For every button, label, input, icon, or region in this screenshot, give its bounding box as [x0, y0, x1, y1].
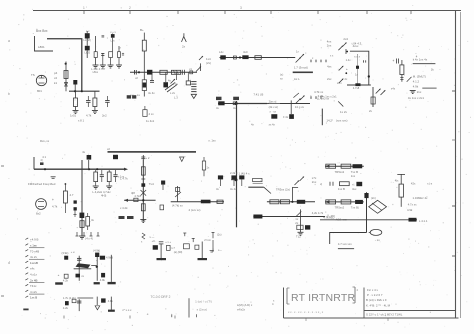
title block logo left bracket	[286, 288, 288, 304]
resistor R843	[87, 213, 89, 217]
transistor M3 arrows	[339, 79, 344, 84]
cap under divider	[113, 155, 118, 159]
box K2	[160, 205, 164, 210]
resistor R841 column	[65, 183, 67, 185]
mixer transistor M1 arrows	[338, 46, 343, 51]
svg-text:S 22Y u 1° uk 2 6EY2 T1WL: S 22Y u 1° uk 2 6EY2 T1WL	[366, 313, 403, 317]
coil L860 at left end W216	[253, 215, 262, 219]
svg-text:L(M) (A.D) x: L(M) (A.D) x	[237, 303, 253, 307]
resistor R850 on V3	[141, 167, 145, 175]
transformer bar dark	[76, 263, 91, 268]
ground under x300	[298, 231, 304, 233]
svg-text:2x: 2x	[345, 77, 348, 81]
svg-text:x | x: x | x	[427, 182, 433, 186]
svg-text:2xx: 2xx	[312, 180, 317, 184]
wire W51 with corner	[350, 51, 369, 85]
input connector J1 bracket	[35, 36, 54, 51]
svg-text:4: 4	[272, 302, 274, 306]
svg-text:2x: 2x	[295, 221, 299, 225]
resistor R862 on Y183	[340, 182, 350, 186]
capacitor C805 top bars	[102, 35, 105, 37]
resistor R801	[95, 36, 97, 52]
resistor R811	[142, 40, 146, 51]
svg-text:x x · x · x x · x · x · x ·: x x · x · x x · x · x · x · x x · x	[288, 310, 324, 314]
wire to V6	[343, 103, 367, 105]
vertical V4	[366, 192, 368, 232]
box B1	[64, 274, 68, 278]
svg-text:42x: 42x	[411, 182, 416, 186]
svg-text:L 2x: L 2x	[170, 91, 176, 95]
svg-text:(2k x w): (2k x w)	[269, 105, 279, 109]
svg-text:x2: x2	[107, 147, 110, 151]
resistor R820 on Y57	[255, 56, 261, 60]
transistor Q812 arrows	[295, 181, 300, 186]
cap C830 drop	[88, 160, 90, 170]
ground under R832	[106, 185, 112, 187]
FM rail wire	[34, 168, 124, 170]
short wire stub W188	[248, 186, 263, 188]
svg-text:4|x: 4|x	[395, 179, 399, 183]
V3 top cap	[142, 155, 144, 160]
svg-text:TR5xx2: TR5xx2	[335, 206, 345, 210]
svg-text:x + x: x + x	[110, 31, 116, 34]
cluster B coil	[65, 301, 69, 305]
svg-text:Fx/ x 4 x: Fx/ x 4 x	[367, 288, 378, 292]
coil L814 drop	[165, 72, 167, 82]
svg-text:Bxx Bxx: Bxx Bxx	[36, 29, 48, 33]
zigzag symbol	[142, 233, 145, 239]
svg-text:TR5xx2: TR5xx2	[335, 170, 345, 174]
svg-text:2ˆmm: 2ˆmm	[204, 238, 211, 242]
transformer link wire	[91, 265, 97, 267]
junction blob V1 mid	[235, 178, 238, 181]
svg-text:4 (xxx xx): 4 (xxx xx)	[189, 208, 201, 212]
junction dot V3 W200	[142, 199, 144, 201]
capacitor C815 bars on bus	[181, 70, 183, 75]
resistor R813 on bus	[171, 70, 180, 74]
speaker bracket	[321, 109, 323, 126]
svg-text:2x: 2x	[182, 45, 186, 49]
cluster B vert cap	[78, 299, 80, 311]
resistor R860 on Y166	[326, 164, 336, 168]
svg-text:2x: 2x	[369, 109, 373, 113]
wire input to C803 corner	[47, 39, 82, 91]
svg-text:x2: x2	[54, 76, 57, 80]
cross marks V3	[141, 190, 147, 196]
capacitor C817 drop	[151, 72, 153, 80]
legend row 11	[25, 296, 28, 298]
title block separator	[363, 288, 365, 319]
cluster B coil2	[101, 298, 106, 302]
svg-text:4x: 4x	[216, 106, 219, 110]
resistor R863 on Y202b	[326, 200, 336, 204]
bracket block tick	[196, 314, 198, 317]
coil B4	[100, 256, 105, 260]
wire W220	[320, 219, 417, 221]
legend row 4	[25, 255, 28, 257]
resistor R815 lower	[142, 80, 146, 91]
svg-text:4.9kB: 4.9kB	[106, 256, 113, 260]
resistor R865	[397, 173, 405, 175]
svg-text:T41x: T41x	[30, 284, 37, 288]
svg-text:4.7: 4.7	[70, 193, 74, 197]
svg-text:L8xx: L8xx	[93, 70, 99, 74]
small box on bus	[190, 71, 193, 74]
svg-text:xx: xx	[81, 275, 84, 278]
svg-text:+4.9 B: +4.9 B	[30, 238, 39, 242]
diagonal into riser	[293, 93, 299, 98]
antenna symbol	[182, 37, 187, 42]
svg-text:x 4s: x 4s	[173, 82, 178, 86]
title block bottom rule	[284, 317, 459, 319]
svg-text:2|xx x|: 2|xx x|	[269, 100, 277, 104]
IF transformer core square	[356, 66, 359, 69]
wire W216	[253, 216, 325, 218]
svg-text:M. (3MLT): M. (3MLT)	[413, 75, 426, 79]
svg-text:(a),(30): (a),(30)	[174, 250, 183, 254]
resistor R803	[109, 52, 113, 58]
svg-text:b: b	[8, 92, 10, 96]
svg-text:FM/Fe/Fed Freq Med: FM/Fe/Fed Freq Med	[28, 182, 56, 186]
junction blob on W51 vertical	[368, 75, 370, 77]
transistor Q801	[36, 75, 46, 85]
svg-text:2xx: 2xx	[327, 43, 332, 47]
IF tick pair row	[310, 60, 312, 63]
cluster A coil C901	[64, 256, 68, 260]
svg-text:Txx B|: Txx B|	[351, 206, 359, 210]
junction dot clusterA	[96, 266, 98, 268]
capsule component	[370, 229, 382, 235]
dash pair below rail	[51, 176, 56, 178]
coil L851	[161, 181, 165, 185]
coil L853 on W202	[297, 200, 305, 204]
lower cluster box column x300	[300, 209, 302, 232]
svg-text:4.7k2: 4.7k2	[134, 194, 141, 198]
coil L861 on Y166	[353, 164, 363, 168]
striped transformer block	[191, 81, 196, 83]
svg-text:1 (ur) ! u (T!): 1 (ur) ! u (T!)	[195, 300, 212, 304]
svg-text:x. 1xx: x. 1xx	[208, 139, 216, 143]
svg-text:x2: x2	[135, 76, 138, 80]
coil L810 on bus	[147, 70, 152, 75]
mid cluster cap bars	[159, 241, 164, 243]
tick under	[171, 314, 173, 317]
svg-text:Rxx, xx: Rxx, xx	[40, 139, 50, 143]
rail arrow end	[124, 168, 128, 171]
svg-text:1xx: 1xx	[351, 174, 356, 178]
cluster B wire	[77, 297, 93, 299]
svg-text:L805: L805	[85, 52, 91, 55]
svg-text:4x 1xx x 2x1: 4x 1xx x 2x1	[408, 96, 424, 100]
svg-text:RT IRTNRTR: RT IRTNRTR	[291, 292, 355, 304]
cluster B box	[72, 299, 76, 303]
riser x292 W202	[292, 188, 298, 202]
node X1 with resistor R805	[65, 63, 67, 65]
dark level bar 1500	[293, 72, 313, 74]
svg-text:x 1xx: x 1xx	[30, 244, 37, 248]
resistor R830	[401, 60, 403, 65]
svg-text:4.9k: 4.9k	[407, 208, 413, 212]
coil B3	[101, 273, 105, 278]
legend row 2	[25, 244, 28, 246]
mid cluster gnd2 bar	[198, 258, 208, 260]
legend row 9	[25, 284, 28, 286]
mid cluster coil	[153, 245, 158, 250]
svg-text:x4x: x4x	[391, 87, 396, 91]
svg-text:4x: 4x	[251, 123, 254, 127]
svg-text:14 g xx: 14 g xx	[295, 105, 305, 109]
svg-text:xx 4x: xx 4x	[269, 123, 276, 127]
svg-text:1.4x: 1.4x	[346, 58, 352, 62]
svg-text:4.7 xxx xxx: 4.7 xxx xxx	[338, 242, 352, 246]
wire Y57 main	[220, 57, 296, 59]
svg-text:xx: xx	[280, 77, 283, 81]
svg-text:x4/x2x: x4/x2x	[237, 308, 246, 312]
svg-text:4.9k: 4.9k	[100, 278, 106, 282]
svg-text:(4.7k) xx: (4.7k) xx	[172, 204, 183, 208]
resistor R856 right of divider	[203, 157, 205, 161]
resistor R807	[75, 91, 77, 98]
junction dots on rail	[44, 168, 46, 170]
title block logo right bracket	[354, 287, 356, 303]
resistor R851 on V3	[141, 204, 145, 211]
svg-text:4x 4x: 4x 4x	[148, 91, 155, 95]
wire W202 right segment	[267, 201, 315, 203]
tick below title	[305, 319, 307, 322]
ground under R804	[116, 64, 122, 66]
svg-text:x: x	[312, 57, 314, 60]
capacitor C805	[102, 53, 104, 65]
rail left stub	[33, 157, 35, 169]
legend row 5	[25, 261, 28, 263]
svg-text:4s: 4s	[168, 78, 171, 82]
legend row 1	[25, 238, 28, 240]
ground under C805	[100, 64, 106, 66]
ground under R831	[93, 185, 99, 187]
mid cluster hanger b	[192, 238, 194, 242]
svg-text:1xxxB: 1xxxB	[30, 261, 38, 265]
cap hanger row above clusterA	[76, 232, 78, 236]
IF bus wire	[130, 71, 197, 73]
svg-text:4.9k: 4.9k	[108, 299, 114, 303]
svg-text:TL4: TL4	[149, 182, 154, 186]
coil L820 on Y57	[220, 55, 226, 59]
svg-text:1xx B: 1xx B	[30, 296, 37, 300]
svg-text:4.7k: 4.7k	[52, 205, 58, 209]
svg-text:t.04 4.3: t.04 4.3	[352, 42, 362, 46]
wire Y103 heavy segment	[234, 103, 267, 105]
transistor arrow T2 drop	[176, 72, 178, 80]
diamond VDR	[369, 200, 387, 213]
svg-text:3: 3	[240, 6, 242, 10]
ground under R803	[108, 64, 114, 66]
svg-text:L.3: L.3	[174, 96, 178, 100]
svg-text:LL (xx) xx: LL (xx) xx	[317, 97, 330, 101]
svg-text:+: +	[52, 198, 54, 202]
capacitor C831	[100, 174, 104, 176]
svg-text:TS: TS	[31, 73, 35, 77]
legend row 7	[25, 273, 28, 275]
diagonal on riser	[175, 192, 181, 197]
svg-text:+ x +: + x +	[165, 241, 171, 244]
coil L863 on Y202b	[355, 200, 363, 204]
vertical V1	[236, 101, 238, 227]
riser x291 with cap	[290, 100, 292, 114]
svg-text:4 xx: 4 xx	[149, 112, 155, 116]
svg-text:(4 x 4): (4 x 4)	[85, 237, 93, 241]
ground under R807	[73, 110, 79, 112]
tick below title 2	[387, 319, 389, 322]
tick pair row Y103	[310, 96, 312, 99]
svg-text:x—: x—	[218, 249, 222, 252]
svg-text:L.4.7k: L.4.7k	[120, 177, 128, 181]
corner wire V4 left	[330, 233, 367, 245]
legend row 6	[25, 267, 28, 269]
dark labels TL2 TL2	[119, 216, 125, 219]
junction dot bus x139	[138, 71, 140, 73]
mid cluster box2	[195, 245, 199, 249]
svg-text:K. 4°B: 2.™ · 4L M: K. 4°B: 2.™ · 4L M	[366, 304, 391, 308]
svg-text:(3.9k): (3.9k)	[62, 251, 69, 255]
small arrow	[407, 77, 412, 82]
diagonal from stub	[264, 187, 271, 193]
svg-text:x|: x|	[320, 182, 322, 186]
ground bar A1	[55, 282, 63, 284]
svg-text:1x 2x: 1x 2x	[340, 110, 347, 114]
svg-text:8x2: 8x2	[36, 212, 41, 216]
diode D801	[64, 85, 68, 87]
junction dot Y57	[239, 56, 241, 58]
vertical V3	[142, 160, 144, 222]
triangle mark	[180, 157, 184, 162]
coil L805	[85, 46, 90, 51]
svg-text:TL2: TL2	[296, 235, 301, 239]
section divider wire	[108, 151, 197, 153]
svg-text:4xx: 4xx	[352, 187, 357, 191]
svg-text:2xx: 2xx	[327, 77, 332, 81]
svg-text:4.9k: 4.9k	[413, 85, 419, 89]
junction dot left col	[345, 72, 347, 74]
vertical xA with cap	[78, 256, 80, 281]
svg-text:+C.: +C.	[152, 239, 156, 243]
svg-text:7.41 | B: 7.41 | B	[253, 93, 263, 97]
svg-text:d: d	[8, 261, 10, 265]
svg-text:+: +	[346, 67, 348, 71]
box B2	[76, 274, 81, 278]
svg-text:1x 4x1: 1x 4x1	[146, 119, 155, 123]
svg-text:x1: x1	[189, 67, 192, 71]
coil L840 on V2	[80, 213, 85, 218]
svg-text:2.2k x: 2.2k x	[230, 171, 238, 175]
svg-text:1x: 1x	[296, 50, 299, 54]
h line right	[422, 87, 436, 89]
svg-text:1.43MHz 4x: 1.43MHz 4x	[413, 196, 429, 200]
box on W200	[134, 198, 138, 201]
legend row 8	[25, 279, 28, 281]
underline k-line	[413, 63, 436, 65]
svg-text:x x: x x	[330, 55, 334, 58]
capacitor C803	[85, 33, 90, 38]
mid cluster vert1	[160, 244, 162, 258]
svg-text:4x0: 4x0	[243, 50, 248, 54]
bus y85	[347, 84, 371, 86]
mid cluster gnd1 bar	[157, 258, 167, 260]
ground under R809	[92, 110, 98, 112]
wire Y103 right	[267, 103, 310, 105]
coil L850 on V3	[141, 183, 145, 187]
svg-text:B (x4) x R2k x F: B (x4) x R2k x F	[366, 298, 387, 302]
mid cluster vert2	[201, 242, 203, 259]
svg-text:2xx: 2xx	[417, 90, 422, 94]
svg-text:TC-0.0 DRF 2: TC-0.0 DRF 2	[151, 295, 171, 299]
wire W202 left segment	[171, 201, 224, 203]
resistor R832 rail drop	[108, 170, 110, 172]
svg-text:4H2: 4H2	[101, 194, 107, 198]
cluster B vert3	[110, 297, 112, 310]
resistor R840 on V2	[80, 221, 84, 228]
svg-text:L 4.1.1: L 4.1.1	[419, 219, 428, 223]
coil L824 on Y103	[218, 101, 224, 105]
coil on bus y85	[355, 83, 360, 86]
svg-text:1.7: 1.7	[171, 246, 175, 250]
svg-text:1.(4)| 4 x: 1.(4)| 4 x	[239, 172, 251, 176]
svg-text:4.7x8: 4.7x8	[353, 86, 360, 90]
svg-text:4x: 4x	[91, 218, 95, 222]
vertical V2	[81, 160, 83, 236]
svg-text:P · x 2.2 6 7: P · x 2.2 6 7	[367, 293, 383, 297]
svg-text:L801: L801	[38, 45, 45, 49]
wire TL2 bottom	[143, 91, 145, 97]
svg-text:4.2k: 4.2k	[63, 279, 69, 283]
svg-text:4.1.2: 4.1.2	[413, 80, 420, 84]
riser x222 to W202	[221, 187, 223, 202]
svg-text:4xx: 4xx	[327, 65, 332, 69]
dark mark left margin	[40, 162, 44, 165]
resistor R854 on W202	[280, 200, 289, 204]
coil L808	[112, 33, 114, 36]
svg-text:T0 x4B: T0 x4B	[30, 249, 39, 253]
legend bottom dark mark	[23, 309, 28, 311]
svg-text:4.7k: 4.7k	[86, 114, 92, 118]
svg-text:k1: k1	[54, 81, 57, 85]
svg-text:+: +	[392, 59, 394, 63]
transistor Q803 collector arrow	[199, 56, 203, 60]
svg-text:14,2°: 14,2°	[326, 119, 333, 123]
legend row 3	[25, 250, 28, 252]
resistor R864 on Y202b	[341, 200, 351, 204]
resistor R809	[94, 91, 96, 98]
svg-text:L8x: L8x	[111, 40, 116, 43]
resistor R831 rail drop	[95, 170, 97, 172]
title block mid rule	[364, 310, 456, 312]
wire TL2 mid	[143, 51, 145, 80]
svg-text:(4.9k): (4.9k)	[93, 249, 100, 253]
svg-text:4.x2x: 4.x2x	[30, 290, 37, 294]
svg-text:TR5xx (2x): TR5xx (2x)	[276, 188, 290, 192]
capacitor C813 on bus	[134, 70, 136, 75]
transistor Q806 arrows	[296, 99, 301, 104]
capacitor C832	[113, 174, 117, 176]
svg-text:4x.2x: 4x.2x	[30, 255, 37, 259]
svg-text:1x: 1x	[207, 166, 210, 170]
svg-text:2: 2	[357, 288, 359, 292]
legend row 10	[25, 290, 28, 292]
wire Y103 left	[218, 103, 238, 105]
demod arrows right	[376, 89, 381, 94]
resistor R852 on W202	[217, 200, 223, 203]
svg-text:1: 1	[83, 6, 85, 10]
capacitor C807	[74, 80, 76, 91]
